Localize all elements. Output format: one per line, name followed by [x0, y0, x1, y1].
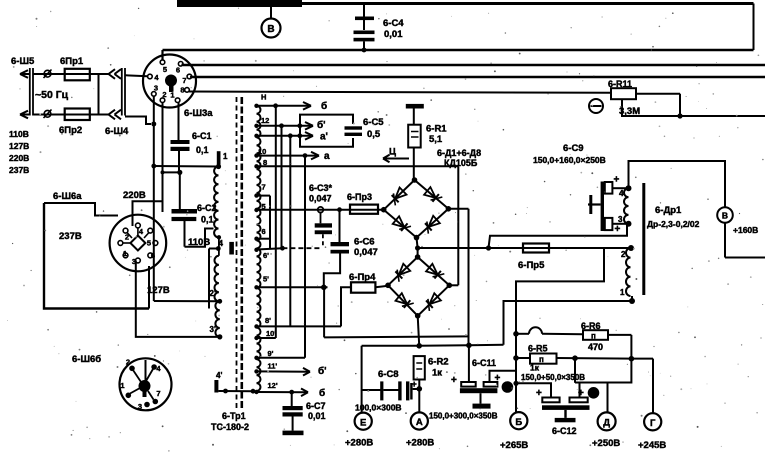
svg-text:8': 8': [265, 316, 271, 325]
svg-text:6-R6: 6-R6: [581, 321, 601, 331]
label 127В: [147, 285, 170, 296]
svg-text:7: 7: [182, 76, 186, 85]
wire: upper mains to pin 4: [125, 75, 148, 76]
choke winding 1 (Б-Др1): [624, 185, 632, 227]
diode D3: [393, 216, 411, 231]
svg-text:2: 2: [126, 358, 130, 367]
svg-text:6-С9: 6-С9: [563, 143, 584, 154]
svg-text:б': б': [317, 119, 326, 131]
svg-text:А: А: [416, 417, 423, 428]
svg-text:4': 4': [216, 371, 222, 380]
wire: bridge1 minus stub: [415, 238, 420, 251]
wire: tap Н to б arrow: [257, 102, 312, 110]
label 2prime: [210, 289, 216, 298]
bridge 1 frame: [381, 177, 451, 240]
diode D7: [396, 293, 414, 308]
terminal Д (+250В): [598, 412, 616, 430]
label 6-Ш6а: [53, 191, 82, 202]
capacitor C9 (Б-С9): [588, 175, 627, 236]
node: vertical A to primary tap 1: [151, 164, 218, 169]
svg-text:+: +: [495, 373, 501, 384]
svg-text:В: В: [722, 211, 728, 221]
node: primary tap 2prime: [217, 299, 222, 304]
svg-text:6-Ш5: 6-Ш5: [11, 56, 35, 67]
svg-text:6-С12: 6-С12: [552, 426, 577, 436]
terminal В (+160В): [717, 207, 765, 257]
fuse 6Пр1: [65, 69, 90, 81]
svg-text:6-Тр1: 6-Тр1: [222, 411, 246, 421]
node: R5 tap on Б rail: [513, 355, 519, 361]
label Пр4: [349, 272, 376, 283]
svg-text:6-С11: 6-С11: [472, 358, 496, 368]
transformer secondary winding: [257, 106, 261, 391]
resistor R5 (Б-R5 1к): [530, 354, 631, 365]
svg-text:а: а: [324, 151, 330, 162]
svg-text:+280В: +280В: [345, 438, 373, 449]
wire: tap 11 to а' arrow: [257, 132, 314, 140]
choke core: [642, 183, 645, 295]
svg-text:110В: 110В: [188, 237, 210, 248]
connector 6-Ш4 lower chevrons: [109, 110, 122, 120]
svg-text:0,1: 0,1: [201, 215, 214, 225]
wire: tap 6 jog: [257, 238, 271, 240]
connector Ш6б (6-Ш6б): [120, 358, 172, 412]
svg-text:6-Др1: 6-Др1: [655, 205, 682, 216]
svg-text:12: 12: [261, 116, 269, 125]
wire: R6 line with hop: [518, 327, 583, 334]
svg-text:6-Ш3а: 6-Ш3а: [184, 108, 213, 119]
svg-text:6-Пр3: 6-Пр3: [347, 192, 372, 202]
wire: lower right net: [621, 99, 765, 116]
connector 6-Ш5 upper pin arrow: [20, 70, 29, 78]
svg-text:2: 2: [125, 233, 129, 242]
svg-text:6-Д1+6-Д8: 6-Д1+6-Д8: [437, 148, 481, 158]
wire: upper mains: [33, 73, 109, 75]
wire: C2 stem step to 110В area: [185, 229, 214, 247]
wire: pin3 vertical A: [153, 96, 155, 301]
svg-text:Н: Н: [261, 93, 266, 102]
svg-text:220В: 220В: [123, 190, 146, 201]
blob: solder blob near C10: [588, 387, 600, 399]
svg-text:Б: Б: [515, 417, 522, 428]
wire: tap1 return: [504, 301, 633, 345]
label +245В: [638, 440, 666, 451]
label C8: [355, 369, 402, 413]
wire: tap 5' to C6 node: [257, 285, 328, 291]
svg-text:0,01: 0,01: [308, 411, 326, 421]
svg-text:7: 7: [262, 183, 266, 192]
fuse Pr3 (Б-Пр3): [337, 205, 378, 214]
svg-text:0,1: 0,1: [196, 145, 209, 155]
resistor R6 (Б-R6 470): [583, 330, 631, 340]
label R11: [608, 79, 640, 117]
capacitor C5 (Б-С5 0,5): [345, 126, 363, 136]
ground: C12: [555, 410, 576, 422]
svg-text:0,01: 0,01: [384, 29, 403, 40]
capacitor C8 (Б-С8 100,0x300В): [362, 379, 420, 400]
svg-text:+250В: +250В: [592, 438, 620, 449]
label C6: [354, 237, 378, 259]
label б' lower: [318, 365, 327, 377]
capacitor C10 pair: [513, 381, 587, 403]
labels choke taps: [618, 189, 626, 297]
wire: junction to vertical B: [161, 170, 180, 174]
labels: secondary taps: [258, 93, 278, 391]
label 6-Ш5: [11, 56, 35, 67]
wire: bridge2 minus vertical: [418, 316, 420, 346]
diode D4: [425, 216, 440, 234]
label 1: [223, 152, 228, 161]
svg-text:4: 4: [619, 189, 624, 198]
svg-text:6-R2: 6-R2: [428, 357, 449, 368]
svg-text:5': 5': [263, 275, 269, 284]
svg-text:6: 6: [262, 227, 266, 236]
svg-text:б: б: [319, 387, 325, 399]
svg-text:6-Пр5: 6-Пр5: [518, 260, 545, 271]
label Пр5: [518, 260, 545, 271]
label +160В: [733, 225, 758, 235]
diode D8: [426, 293, 441, 311]
svg-text:6: 6: [151, 251, 155, 260]
svg-text:п: п: [539, 355, 544, 364]
svg-text:6-С1: 6-С1: [192, 131, 212, 141]
wire: tap 7 jog: [257, 196, 271, 249]
svg-text:3: 3: [618, 215, 623, 224]
label 4: [219, 239, 224, 248]
label C5: [363, 117, 384, 140]
connector Ш3а (6-Ш3а): [143, 55, 196, 108]
label C2: [197, 203, 217, 225]
svg-text:6Пр1: 6Пр1: [60, 56, 84, 67]
wire: tap 5 to fuse line: [257, 209, 384, 211]
label diodes: [437, 148, 481, 168]
node: vertical A mains tap: [151, 122, 156, 127]
svg-text:КД105Б: КД105Б: [444, 158, 478, 168]
svg-text:6: 6: [176, 66, 180, 75]
svg-text:5: 5: [147, 239, 151, 248]
svg-text:110В: 110В: [9, 129, 29, 139]
label 4prime: [216, 371, 222, 380]
bridge 2 frame: [385, 254, 452, 318]
terminal Б (+265В): [510, 412, 527, 429]
capacitor C2 (Б-С2 0,1): [172, 172, 198, 246]
resistor R1 (Б-R1 5,1): [406, 104, 424, 180]
svg-text:12': 12': [268, 381, 278, 390]
svg-text:470: 470: [588, 342, 603, 352]
svg-text:б: б: [321, 100, 327, 112]
svg-text:п: п: [591, 332, 596, 341]
label cap values mid: [521, 373, 585, 382]
symbol: minus terminal circle: [589, 99, 603, 113]
capacitor C4 (Б-С4 0,01): [354, 4, 375, 52]
label C3: [309, 183, 333, 204]
label R1: [426, 124, 447, 146]
wire: rail 2 (to Е): [362, 343, 504, 349]
fuse 6Пр2: [65, 109, 90, 121]
wire: tap 11' to б': [257, 368, 311, 376]
wire: branch to choke tap 3: [489, 224, 628, 248]
svg-text:10': 10': [266, 329, 276, 338]
svg-text:3: 3: [132, 257, 136, 266]
wire: tap 12' to б: [257, 389, 309, 397]
svg-text:а': а': [320, 132, 328, 143]
diode D5: [395, 264, 410, 282]
wire: tap 6' with dashed link to C3: [257, 246, 322, 251]
svg-text:220В: 220В: [9, 153, 29, 163]
svg-text:Др-2,3-0,2/02: Др-2,3-0,2/02: [647, 219, 700, 229]
label +280В (Е): [345, 438, 373, 449]
fuse Pr5 (Б-Пр5): [523, 244, 549, 253]
wire: top bus line to right: [302, 2, 754, 5]
svg-text:6-Ш6а: 6-Ш6а: [53, 191, 82, 202]
svg-text:1: 1: [620, 288, 625, 297]
svg-text:Г: Г: [650, 418, 656, 429]
wire: vertical net а: [304, 156, 306, 358]
svg-text:6-С7: 6-С7: [306, 401, 326, 411]
label voltages: [9, 129, 29, 175]
label б: [321, 100, 327, 112]
transformer primary winding section 2: [214, 256, 218, 302]
svg-text:127В: 127В: [9, 141, 29, 151]
wire: bottom line to pin: [148, 266, 150, 309]
node: R6 tap on Б rail: [513, 331, 519, 337]
wire: to Г terminal: [631, 359, 653, 413]
wire: vertical net б': [281, 126, 283, 248]
label Б-Тр1: [222, 411, 246, 421]
ground: C11 common: [473, 393, 491, 408]
svg-text:8: 8: [180, 86, 184, 95]
capacitor C7 (Б-С7 0,01): [283, 392, 303, 431]
label +265В: [500, 440, 528, 451]
wire: top bus thick bar: [177, 0, 302, 7]
wire: negative rail 1: [324, 287, 468, 337]
svg-text:б': б': [318, 365, 327, 377]
wire: tap 10 to а arrow: [257, 152, 320, 160]
svg-text:3: 3: [154, 84, 158, 93]
wire: choke w2 lower stub: [631, 296, 633, 301]
svg-text:Ц: Ц: [389, 147, 396, 158]
svg-text:+: +: [412, 379, 417, 389]
svg-text:6-R1: 6-R1: [426, 124, 447, 135]
wire: tap 9': [257, 357, 306, 359]
wire: C5 loop box: [300, 115, 353, 147]
wire: branch to Б rail: [516, 248, 604, 412]
svg-text:1: 1: [120, 381, 124, 390]
svg-text:1к: 1к: [432, 368, 442, 379]
svg-text:150,0+300,0×350В: 150,0+300,0×350В: [429, 412, 498, 421]
svg-text:6-Пр4: 6-Пр4: [349, 272, 376, 283]
node: C3 tap circle: [318, 207, 324, 213]
svg-text:127В: 127В: [147, 285, 170, 296]
label Др1: [647, 205, 700, 229]
node: primary top tap: [216, 164, 221, 169]
terminal Е (+280В): [355, 413, 372, 430]
label R2: [428, 357, 449, 379]
label 6-Ш6б: [72, 354, 101, 365]
wire: tap 12 to б' arrow: [257, 122, 314, 130]
svg-text:0,5: 0,5: [367, 129, 381, 140]
svg-text:+: +: [536, 388, 542, 399]
label 6-Ш3а: [184, 108, 213, 119]
svg-text:150,0+50,0×350В: 150,0+50,0×350В: [521, 373, 585, 382]
terminal lug tap 1: [217, 151, 221, 165]
diode D2: [424, 187, 442, 202]
wire: vertical A to 2prime: [154, 300, 220, 302]
label C1: [192, 131, 212, 155]
wire: bridge1 to bridge2 link: [417, 248, 419, 257]
svg-text:0,047: 0,047: [354, 247, 378, 258]
terminal А (+280В): [411, 412, 428, 429]
capacitor C3 (Б-С3* 0,047): [315, 213, 332, 249]
transformer core: [237, 97, 242, 410]
label C7: [306, 401, 326, 421]
terminal lug tap 4: [229, 242, 234, 255]
capacitor C6 (Б-С6 0,047): [324, 210, 349, 288]
svg-text:6-Ш6б: 6-Ш6б: [72, 354, 101, 365]
wire: R5 left lead: [518, 357, 530, 359]
svg-text:6-С4: 6-С4: [383, 18, 404, 29]
wire: bottom link 4prime to secondary end: [218, 389, 256, 394]
svg-text:~50 Гц: ~50 Гц: [35, 89, 69, 101]
label +280В (А): [406, 438, 434, 449]
connector 6-Ш4 mating bars: [122, 68, 125, 116]
wire: box outer left/bottom: [44, 203, 149, 309]
terminal lug tap 4prime: [214, 380, 218, 393]
connector 6-Ш5 mating bars: [30, 68, 33, 116]
label 6Пр1: [60, 56, 84, 67]
connector 6-Ш5 lower pin arrow: [20, 111, 29, 119]
wire: R11 right lead: [636, 94, 680, 116]
wire 3 (net from pin 7): [190, 76, 765, 79]
label а': [320, 132, 328, 143]
label C9: [533, 143, 606, 165]
svg-text:6': 6': [263, 251, 269, 260]
svg-text:3: 3: [138, 402, 142, 411]
node: junction R11/bottom wire: [677, 113, 682, 118]
label cap values left: [429, 412, 498, 421]
svg-text:0,047: 0,047: [309, 194, 332, 204]
svg-text:100,0×300В: 100,0×300В: [355, 403, 402, 413]
svg-text:+: +: [614, 175, 620, 186]
diode D6: [426, 264, 444, 279]
svg-text:2': 2': [210, 289, 216, 298]
wire: pin to 3prime: [136, 261, 220, 337]
wire: tap 8 long (to bridge 2 right): [257, 166, 459, 285]
label C4: [383, 18, 404, 40]
terminal B (В) top: [262, 7, 281, 38]
resistor R11 (Б-R11 3,3М): [611, 88, 636, 99]
svg-text:6-С5: 6-С5: [363, 117, 384, 128]
svg-text:9': 9': [268, 349, 274, 358]
wire: pin2 vertical B: [162, 103, 164, 213]
svg-text:6-С3*: 6-С3*: [309, 183, 333, 193]
label ~50 Гц: [35, 89, 69, 101]
wire: box outer top: [44, 203, 118, 216]
label 6Пр2: [59, 125, 82, 136]
svg-text:3': 3': [210, 325, 216, 334]
wire 1 (net from pin 5 along top): [163, 50, 754, 60]
wire: rectifier output line: [418, 245, 629, 250]
wire: tap 10': [257, 337, 276, 339]
svg-text:+160В: +160В: [733, 225, 758, 235]
wire: lower mains: [33, 114, 109, 116]
label Пр3: [347, 192, 372, 202]
diode D1: [392, 188, 407, 206]
connector 6-Ш4 upper chevrons: [109, 69, 122, 79]
svg-text:6-С6: 6-С6: [354, 237, 375, 248]
wire: bridge1 plus lead: [448, 209, 468, 345]
resistor R2 (Б-R2 1к): [414, 356, 425, 412]
svg-text:+245В: +245В: [638, 440, 666, 451]
svg-text:+: +: [615, 224, 621, 235]
wire: tap 8' to Pr4 riser: [257, 325, 342, 327]
label C11: [472, 358, 496, 368]
nodes: secondary tap dots: [254, 104, 258, 395]
label 110В: [188, 237, 210, 248]
connector Ш6а (6-Ш6а): [110, 215, 167, 272]
node: primary sec1 end: [217, 235, 221, 256]
wire: vertical net б: [275, 106, 277, 338]
terminal Г (+245В): [644, 413, 661, 430]
svg-text:5: 5: [163, 65, 167, 74]
svg-text:237В: 237В: [9, 165, 29, 175]
wire 4 (net from pin 8 to R11): [189, 92, 611, 93]
svg-text:6-Ш4: 6-Ш4: [105, 126, 129, 137]
blob: solder blob near C11: [502, 381, 514, 393]
contact slash lower: [44, 110, 52, 119]
svg-text:1: 1: [223, 152, 228, 161]
label +250В: [592, 438, 620, 449]
fuse Pr4 (Б-Пр4): [341, 282, 388, 326]
wire: Е drop: [361, 346, 363, 413]
svg-text:7: 7: [156, 389, 160, 398]
label 237В: [59, 231, 82, 242]
wire: vertical B step into connector: [133, 201, 163, 226]
svg-text:Д: Д: [603, 418, 610, 429]
svg-text:1: 1: [123, 249, 127, 258]
wire 2 (net from pin 6): [182, 63, 765, 66]
capacitor C12 common bar: [542, 405, 590, 410]
svg-text:237В: 237В: [59, 231, 82, 242]
svg-text:11': 11': [268, 362, 278, 371]
wire: cap loop: [575, 358, 631, 412]
label 3prime: [210, 325, 216, 334]
label а: [324, 151, 330, 162]
svg-text:2: 2: [162, 90, 166, 99]
node: primary tap 3prime: [217, 334, 222, 339]
label R6: [581, 321, 603, 352]
svg-text:+265В: +265В: [500, 440, 528, 451]
net label Ц with arrow: [383, 147, 409, 163]
wire: pin1 to C1: [178, 103, 180, 141]
capacitor C1 (Б-С1 0,1): [171, 140, 190, 172]
label ТС-180-2: [211, 422, 249, 432]
label R5: [528, 344, 548, 373]
svg-text:1: 1: [170, 91, 174, 100]
svg-text:+: +: [451, 375, 457, 386]
svg-text:5,1: 5,1: [429, 134, 443, 145]
svg-text:150,0+160,0×250В: 150,0+160,0×250В: [533, 155, 606, 165]
svg-text:+280В: +280В: [406, 438, 434, 449]
ground: C7: [283, 431, 304, 436]
capacitor C11 (Б-С11): [451, 345, 516, 393]
transformer primary winding section 3: [215, 301, 219, 337]
label 220В: [123, 190, 146, 201]
wire: link bar between mains wires: [98, 74, 100, 115]
wire: tap4 branch: [209, 246, 221, 308]
svg-text:6-С8: 6-С8: [378, 369, 399, 380]
wire: choke output to В: [629, 161, 726, 208]
